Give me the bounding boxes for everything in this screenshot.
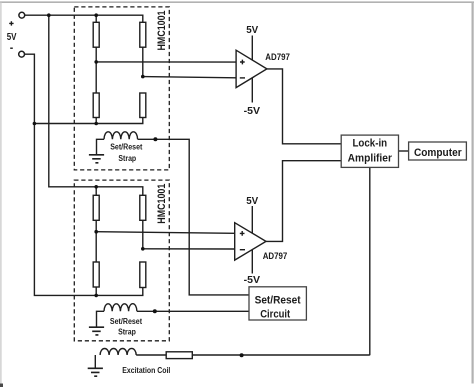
svg-text:Lock-in: Lock-in [352, 137, 387, 149]
svg-text:Set/Reset: Set/Reset [255, 294, 301, 306]
svg-text:-5V: -5V [244, 275, 261, 286]
svg-text:-5V: -5V [244, 106, 261, 117]
svg-text:Strap: Strap [118, 327, 136, 336]
svg-text:HMC1001: HMC1001 [156, 11, 168, 51]
svg-text:AD797: AD797 [265, 52, 290, 62]
svg-text:Excitation Coil: Excitation Coil [122, 365, 170, 375]
svg-text:HMC1001: HMC1001 [156, 184, 168, 224]
svg-text:Computer: Computer [414, 147, 462, 159]
svg-text:Set/Reset: Set/Reset [110, 317, 142, 326]
svg-text:Strap: Strap [118, 154, 136, 163]
svg-text:Amplifier: Amplifier [348, 153, 393, 165]
svg-text:AD797: AD797 [263, 251, 288, 261]
svg-text:5V: 5V [7, 32, 17, 43]
svg-text:Circuit: Circuit [260, 308, 290, 320]
svg-text:Set/Reset: Set/Reset [110, 143, 142, 152]
svg-text:5V: 5V [246, 25, 258, 36]
svg-text:5V: 5V [246, 196, 258, 207]
